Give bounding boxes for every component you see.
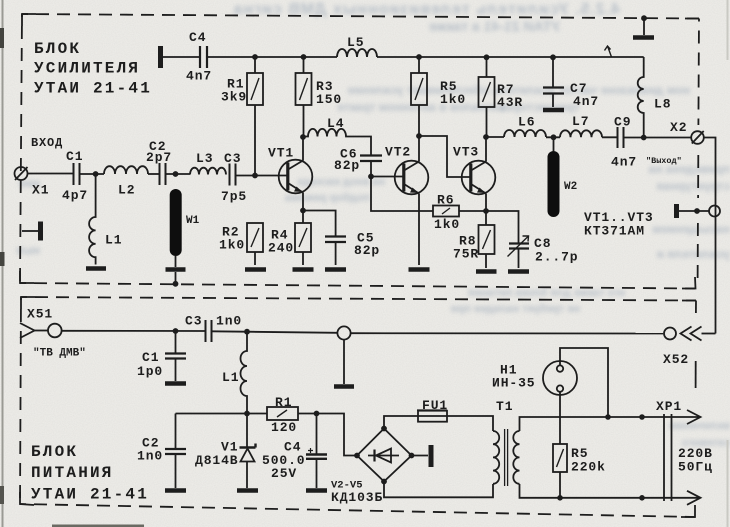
svg-text:2p7: 2p7 — [146, 150, 172, 165]
node C4 tap — [314, 411, 320, 417]
svg-text:1p0: 1p0 — [137, 364, 163, 379]
svg-text:"Выход": "Выход" — [646, 156, 682, 166]
svg-text:R1: R1 — [275, 395, 292, 410]
resistor R6 — [433, 206, 459, 217]
svg-text:1n0: 1n0 — [137, 449, 163, 464]
wire mains lower — [520, 484, 673, 498]
wire — [546, 136, 617, 138]
wire bridge right to chassis — [412, 455, 429, 457]
inductor L2 — [104, 166, 148, 174]
capacitor C5 — [325, 237, 346, 243]
svg-text:L1: L1 — [105, 233, 122, 248]
svg-text:1n0: 1n0 — [216, 314, 242, 329]
svg-text:C1: C1 — [66, 149, 83, 164]
svg-text:УТАИ 21-41: УТАИ 21-41 — [34, 80, 152, 98]
wire mains upper — [520, 417, 673, 431]
inductor L4 — [303, 129, 371, 155]
chassis link bar right side — [674, 204, 679, 218]
resistor R1 (horizontal) — [267, 407, 298, 420]
svg-text:4n7: 4n7 — [611, 155, 637, 170]
connector X52 — [664, 328, 676, 340]
ground under W1 — [175, 256, 177, 267]
svg-text:25V: 25V — [271, 466, 297, 481]
svg-text:C4: C4 — [189, 30, 206, 45]
supply arrow mark — [605, 46, 612, 57]
svg-text:3k9: 3k9 — [221, 90, 247, 105]
svg-text:XP1: XP1 — [656, 399, 682, 414]
svg-text:43R: 43R — [497, 95, 523, 110]
svg-text:БЛОК: БЛОК — [34, 40, 81, 58]
ground under VT2 emitter — [409, 267, 430, 272]
svg-text:УТАИ 21-41: УТАИ 21-41 — [31, 486, 149, 504]
connector circle right side — [709, 206, 720, 217]
node H1 feed on upper line — [605, 414, 611, 420]
inductor L5 — [337, 49, 377, 57]
wire — [212, 331, 338, 333]
node VT1 collector — [300, 134, 306, 140]
wire C9 to X2 — [624, 137, 692, 139]
node R5 on lower line — [557, 495, 563, 501]
wire emitter to C5 — [303, 211, 336, 237]
inductor L8 — [638, 57, 644, 138]
transformer T1 core — [505, 429, 508, 486]
svg-text:240: 240 — [268, 241, 294, 256]
resistor R1 — [247, 73, 263, 105]
resistor R7 — [479, 77, 495, 107]
svg-text:"ТВ ДМВ": "ТВ ДМВ" — [33, 348, 86, 360]
transistor VT3 — [462, 161, 496, 195]
svg-text:L4: L4 — [327, 116, 344, 131]
svg-text:120: 120 — [271, 420, 297, 435]
node L1/V1/R1 — [244, 411, 250, 417]
svg-text:X52: X52 — [663, 352, 689, 367]
svg-text:4p7: 4p7 — [62, 188, 88, 203]
connector X51 arrow — [20, 323, 35, 338]
chassis ground on top border — [641, 15, 647, 21]
svg-text:W2: W2 — [564, 181, 577, 193]
wire bridge bottom — [384, 482, 493, 498]
svg-text:L1: L1 — [222, 370, 239, 385]
node R3-rail — [301, 54, 307, 60]
svg-text:50Гц: 50Гц — [678, 460, 713, 475]
junction dot on right border — [694, 208, 700, 214]
amplifier block dashed border — [22, 14, 36, 26]
ground under V1 — [237, 488, 258, 493]
svg-text:L5: L5 — [347, 35, 364, 50]
svg-text:4n7: 4n7 — [573, 94, 599, 109]
capacitor C2 — [160, 163, 166, 185]
node L8 bottom — [641, 135, 647, 141]
ground under C8 — [508, 269, 529, 274]
ground under R4 — [293, 267, 314, 272]
svg-text:L3: L3 — [196, 151, 213, 166]
capacitor C2 — [175, 414, 177, 449]
svg-text:VT3: VT3 — [453, 145, 479, 160]
wire X2 to down-lead — [704, 138, 716, 334]
svg-text:VT2: VT2 — [385, 145, 411, 160]
node VT3 collector — [483, 134, 489, 140]
ground under C1 — [165, 381, 186, 386]
svg-text:L8: L8 — [654, 97, 671, 112]
wire — [80, 173, 105, 175]
inductor L7 — [560, 130, 602, 137]
svg-text:L6: L6 — [518, 115, 535, 130]
bridge inner diode — [368, 455, 399, 457]
capacitor C6 — [360, 156, 382, 162]
svg-text:VT1: VT1 — [268, 146, 294, 161]
node R7-rail — [484, 54, 490, 60]
svg-text:ВХОД: ВХОД — [31, 136, 63, 150]
svg-text:УСИЛИТЕЛЯ: УСИЛИТЕЛЯ — [34, 60, 140, 78]
node VT2 base — [368, 174, 374, 180]
node B (C2/W1/L3) — [173, 171, 179, 177]
svg-text:БЛОК: БЛОК — [31, 443, 78, 461]
node L1 tap — [244, 329, 250, 335]
trimmer capacitor C8 — [509, 244, 529, 249]
chassis bar at rail left end — [158, 46, 163, 68]
node R5-rail — [416, 54, 422, 60]
ground under R8 — [476, 269, 497, 274]
node dot lower line — [639, 495, 645, 501]
resistor R8 — [479, 225, 495, 254]
svg-text:R6: R6 — [437, 193, 454, 208]
wire antenna line — [62, 330, 205, 332]
svg-text:ПИТАНИЯ: ПИТАНИЯ — [31, 464, 114, 482]
supply wire — [176, 413, 268, 415]
svg-text:82p: 82p — [354, 243, 380, 258]
mains arrow upper — [672, 410, 701, 424]
shield feedthrough circle — [337, 326, 350, 339]
bleed-through heading line 2 — [330, 18, 560, 34]
chassis bar left of X1 — [22, 230, 38, 232]
bleed-through paragraph line — [245, 83, 690, 97]
wire to VT2 base — [371, 176, 404, 178]
wire input line — [28, 173, 74, 175]
svg-text:C3: C3 — [224, 151, 241, 166]
node VT1 emitter — [300, 208, 306, 214]
node R1-rail — [252, 54, 258, 60]
capacitor C3 (series) — [206, 320, 212, 342]
svg-text:1k0: 1k0 — [440, 92, 466, 107]
bleed-through fragment — [582, 162, 730, 176]
wire H1 bottom to R5 — [559, 392, 561, 444]
svg-text:2..7p: 2..7p — [535, 250, 579, 265]
node C7-rail — [550, 54, 556, 60]
transformer T1 right winding — [513, 431, 519, 484]
resistor R2 — [247, 223, 263, 252]
node C1 tap — [173, 328, 179, 334]
inductor L1 (feed choke) — [241, 332, 248, 414]
ground under R2 — [245, 267, 266, 272]
mains arrow lower — [672, 491, 701, 505]
resistor R5 — [411, 73, 427, 105]
X52 plug chevrons — [681, 327, 692, 341]
bleed-through heading line 1 — [200, 1, 620, 19]
inductor L6 — [504, 130, 546, 137]
svg-text:X51: X51 — [27, 307, 53, 322]
wire collector VT3 to L6 — [486, 136, 504, 138]
svg-text:T1: T1 — [496, 399, 513, 414]
svg-text:220k: 220k — [571, 460, 606, 475]
transistor VT1 — [279, 160, 313, 194]
scan left edge artifact — [2, 0, 4, 527]
wire to X52 — [351, 332, 664, 334]
ground stem under feedthrough — [343, 340, 345, 384]
node R1/R2/base line — [252, 173, 258, 179]
svg-text:W1: W1 — [186, 215, 200, 227]
fuse FU1 — [418, 411, 447, 422]
node VT2 collector / VT3 base tap — [416, 133, 422, 139]
capacitor C7 — [552, 57, 554, 87]
wire to VT1 base — [236, 175, 288, 177]
inductor L1 — [89, 174, 96, 265]
capacitor C1 — [74, 163, 80, 185]
electrolytic C4 — [316, 414, 318, 455]
ground under L1 — [86, 266, 106, 271]
capacitor C9 — [618, 127, 624, 148]
connector X51 circle — [48, 324, 62, 338]
stub W1 — [170, 189, 182, 256]
svg-text:ИН-35: ИН-35 — [492, 376, 536, 391]
resistor R3 — [296, 73, 312, 105]
supply rail wire — [207, 56, 337, 58]
svg-text:7p5: 7p5 — [221, 189, 247, 204]
junction dot on border under W1 — [173, 281, 179, 287]
svg-text:КТ371АМ: КТ371АМ — [584, 224, 645, 239]
ground under C4 — [306, 488, 327, 493]
resistor R4 — [295, 223, 311, 252]
capacitor C1 (shunt) — [175, 331, 177, 353]
bleed-through paragraph line — [245, 100, 505, 114]
node A (C1/L1/L2) — [93, 171, 99, 177]
svg-text:1k0: 1k0 — [219, 238, 245, 253]
diode bridge V2-V5 — [357, 429, 412, 482]
svg-text:82p: 82p — [334, 158, 360, 173]
transformer T1 left winding — [493, 431, 499, 484]
wire bridge top to fuse — [384, 416, 418, 429]
wire — [166, 173, 191, 175]
scan bottom edge artifact — [52, 525, 144, 527]
svg-text:X2: X2 — [670, 120, 687, 135]
plug XP1 — [664, 414, 672, 501]
svg-text:L7: L7 — [572, 114, 589, 129]
resistor R5 — [553, 444, 567, 472]
neon lamp H1 — [543, 361, 577, 395]
wire base to R6 — [371, 177, 433, 212]
wire H1 top to upper line — [560, 348, 608, 417]
svg-text:L2: L2 — [118, 183, 135, 198]
svg-text:1k0: 1k0 — [434, 217, 460, 232]
svg-text:X1: X1 — [32, 183, 49, 198]
connector X1 — [15, 167, 28, 180]
svg-text:C1: C1 — [142, 350, 159, 365]
inductor L3 — [190, 168, 226, 175]
ground under C2 — [165, 488, 186, 493]
wire — [148, 173, 159, 175]
transistor VT2 — [395, 161, 429, 195]
wire VT2 collector to VT3 base — [419, 136, 471, 177]
node dot upper line — [639, 414, 645, 420]
connector X2 — [691, 131, 704, 144]
power block dashed border — [21, 297, 35, 309]
svg-text:C9: C9 — [614, 115, 631, 130]
ground under C7 — [543, 108, 564, 113]
capacitor C4 — [200, 46, 207, 68]
wire emitter node to C8 — [486, 211, 519, 243]
svg-text:C3: C3 — [185, 314, 202, 329]
svg-text:КД103Б: КД103Б — [331, 490, 383, 505]
supply rail wire — [377, 56, 644, 58]
svg-text:4n7: 4n7 — [186, 69, 212, 84]
node VT3 emitter / R6 / C8 — [483, 208, 489, 214]
node W2 tap — [551, 134, 557, 140]
svg-text:75R: 75R — [453, 247, 479, 262]
capacitor C3 — [230, 164, 236, 186]
stub W2 — [548, 151, 560, 217]
svg-text:150: 150 — [316, 92, 342, 107]
zener V1 — [246, 414, 248, 448]
ground under C5 — [325, 267, 346, 272]
svg-text:Д814В: Д814В — [195, 453, 239, 468]
